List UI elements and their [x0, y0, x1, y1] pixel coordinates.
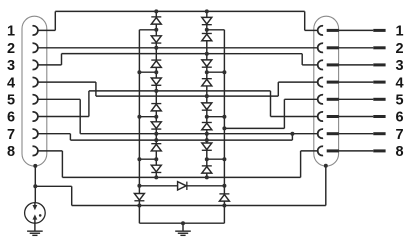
pin 4 contact (J2 right)	[318, 78, 323, 87]
junction GDT node	[33, 184, 37, 188]
pin 8 label dash (right)	[373, 149, 385, 152]
junction left chain y=159.2	[154, 157, 158, 161]
wire row6 left jog x=88.9	[88, 91, 90, 117]
svg-text:5: 5	[395, 93, 403, 109]
wire row1 right jog x=304.7	[304, 11, 306, 30]
wire jog x=71.7 down	[71, 186, 73, 205]
wire J2 shell drop x=325.8	[325, 166, 327, 206]
svg-text:1: 1	[395, 24, 403, 40]
pin 4 contact (J1 left)	[33, 78, 38, 87]
svg-text:4: 4	[7, 75, 15, 91]
junction left chain y=140.1	[154, 138, 158, 142]
wire row8 left jog x=62.4	[61, 151, 63, 178]
diode D13 (cathode down)	[202, 103, 212, 110]
pin 2 lead wire to label (right)	[339, 47, 373, 49]
pin 3 tail dash (J2)	[327, 63, 339, 66]
diode D1 (cathode up)	[151, 17, 161, 24]
junction left chain y=47.8	[154, 46, 158, 50]
earth ground (below GDT)	[27, 231, 43, 235]
wire pin3-L to jog	[38, 64, 62, 66]
junction left bus y=116.7	[137, 115, 141, 119]
junction left chain y=29.8	[154, 28, 158, 32]
junction right chain y=133.8	[205, 132, 209, 136]
wire earth line y=223.2	[139, 222, 224, 224]
junction right chain y=11.4	[205, 9, 209, 13]
junction right chain y=72.2	[205, 70, 209, 74]
svg-text:3: 3	[395, 58, 403, 74]
wire row7 left jog x=70.4	[69, 134, 71, 140]
junction right chain y=96.1	[205, 94, 209, 98]
wire right suppressor bus x=224.4	[223, 30, 225, 223]
svg-text:3: 3	[7, 58, 15, 74]
junction left bus y=159.2	[137, 157, 141, 161]
junction J1 shell node	[33, 164, 37, 168]
pin 4 label dash (right)	[373, 81, 385, 84]
wire row8 right jog x=300.6	[300, 151, 302, 178]
svg-text:8: 8	[395, 144, 403, 160]
junction right bus y=159.2	[222, 157, 226, 161]
wire J1 shell to GDT node	[34, 166, 36, 203]
pin 1 tail dash (J2)	[327, 29, 339, 32]
wire pin1-L to jog	[38, 29, 55, 31]
junction right bus y=128.4	[222, 126, 226, 130]
diode D4 (cathode down)	[151, 78, 161, 85]
junction left chain y=90.9	[154, 89, 158, 93]
wire mid-tap link right y=72.2	[207, 71, 225, 73]
wire mid-tap link left y=29.8	[139, 29, 156, 31]
junction left bus y=205.5	[137, 204, 141, 208]
wire GDT bus link y=185.8	[139, 185, 224, 187]
pin 1 lead wire to label (right)	[339, 29, 373, 31]
wire row6 to pin6-R	[271, 116, 318, 118]
pin 8 contact (J2 right)	[318, 146, 323, 155]
junction row7/row5 step node	[290, 132, 294, 136]
svg-text:7: 7	[7, 127, 15, 143]
pin 6 contact (J1 left)	[33, 112, 38, 121]
svg-text:6: 6	[7, 110, 15, 126]
pin 7 contact (J1 left)	[33, 129, 38, 138]
wire pin7-L to jog	[38, 133, 71, 135]
wire pin8-L to jog	[38, 150, 63, 152]
wire row4 right jog x=278.3	[277, 82, 279, 96]
wire row5 left jog x=80.2	[79, 99, 81, 133]
pin 2 label dash (right)	[373, 46, 385, 49]
wire net row2 straight y=47.8	[38, 47, 318, 49]
wire earth stub x=183	[182, 223, 184, 230]
wire row6 right jog x=270.5	[270, 91, 272, 117]
wire right diode chain spine x=206.8	[206, 11, 208, 177]
wire row3 left jog x=61.5	[61, 54, 63, 65]
pin 3 contact (J2 right)	[318, 60, 323, 69]
junction right chain y=116.7	[205, 115, 209, 119]
gas discharge tube F1	[25, 203, 46, 224]
diode D10 (cathode up)	[202, 33, 212, 40]
diode D3 (cathode up)	[151, 60, 161, 67]
junction right bus y=72.2	[222, 70, 226, 74]
junction right chain y=29.8	[205, 28, 209, 32]
diode D2 (cathode down)	[151, 36, 161, 43]
diode D8 (cathode down)	[151, 165, 161, 172]
wire net row5 run y=133.7 into pin7-R	[80, 133, 318, 135]
svg-text:6: 6	[395, 110, 403, 126]
junction left chain y=72.2	[154, 70, 158, 74]
wire row3 to pin3-R	[302, 64, 318, 66]
pin 2 tail dash (J2)	[327, 46, 339, 49]
wire net row6 run y=90.9	[89, 90, 271, 92]
wire net row8 run y=177.4	[62, 176, 300, 178]
wire mid-tap link right y=159.2	[207, 158, 225, 160]
pin 6 label dash (right)	[373, 115, 385, 118]
wire row4 left jog x=95.9	[95, 82, 97, 96]
wire left diode chain spine x=156.3	[155, 11, 157, 177]
svg-text:1: 1	[7, 24, 15, 40]
pin 7 label dash (right)	[373, 132, 385, 135]
pin 2 contact (J2 right)	[318, 43, 323, 52]
wire GDT node to jog y=186.3	[35, 185, 71, 187]
pin 5 tail dash (J2)	[327, 98, 339, 101]
diode D7 (cathode up)	[151, 144, 161, 151]
pin 6 lead wire to label (right)	[339, 116, 373, 118]
diode D15 (cathode down)	[202, 143, 212, 150]
wire row4 to pin4-R	[278, 81, 317, 83]
wire pin4-L to jog	[38, 81, 96, 83]
diode D16 (cathode up)	[202, 166, 212, 173]
diode D19 (cathode up)	[219, 194, 229, 201]
wire row1 to pin1-R	[305, 29, 318, 31]
wire row7 right step x=292.4	[291, 134, 293, 140]
junction J2 shell node	[324, 164, 328, 168]
junction left chain y=177.4	[154, 175, 158, 179]
wire GDT to earth stub	[34, 223, 36, 230]
pin 5 contact (J2 right)	[318, 95, 323, 104]
junction right chain y=53.7	[205, 52, 209, 56]
junction left bus y=185.8	[137, 184, 141, 188]
diode D6 (cathode down)	[151, 122, 161, 129]
pin 1 label dash (right)	[373, 29, 385, 32]
wire net row4 run y=96.1	[96, 95, 278, 97]
junction right chain y=177.4	[205, 175, 209, 179]
wire row1 left jog x=55.3	[54, 11, 56, 30]
pin 4 tail dash (J2)	[327, 81, 339, 84]
junction earth node	[181, 221, 185, 225]
wire row5 right jog x=284.4	[283, 99, 285, 128]
pin 1 contact (J2 right)	[318, 26, 323, 35]
junction left chain y=116.7	[154, 115, 158, 119]
wire mid-tap link right y=116.7	[207, 116, 225, 118]
pin 2 contact (J1 left)	[33, 43, 38, 52]
wire mid-tap link left y=159.2	[139, 158, 156, 160]
pin 3 lead wire to label (right)	[339, 64, 373, 66]
junction right bus y=116.7	[222, 115, 226, 119]
pin 6 tail dash (J2)	[327, 115, 339, 118]
diode D11 (cathode down)	[202, 60, 212, 67]
junction right chain y=159.2	[205, 157, 209, 161]
wire mid-tap link right y=29.8	[207, 29, 225, 31]
pin 5 contact (J1 left)	[33, 95, 38, 104]
svg-text:2: 2	[395, 41, 403, 57]
junction left chain y=133.8	[154, 132, 158, 136]
junction left bus y=72.2	[137, 70, 141, 74]
wire shell net run y=205.5	[72, 205, 326, 207]
wire mid-tap link left y=116.7	[139, 116, 156, 118]
pin 6 contact (J2 right)	[318, 112, 323, 121]
connector J2 shell (right, 8-pos jack outline)	[314, 16, 339, 166]
diode D18 (series, cathode right) on GDT bus link	[178, 182, 187, 190]
diode D14 (cathode up)	[202, 122, 212, 129]
wire net row3 run y=53.7	[62, 53, 303, 55]
wire row8 to pin8-R	[301, 150, 318, 152]
svg-text:7: 7	[395, 127, 403, 143]
pin 8 lead wire to label (right)	[339, 150, 373, 152]
wire row5 to pin5-R	[284, 98, 317, 100]
earth ground (center)	[175, 231, 191, 235]
junction right bus y=185.8	[222, 184, 226, 188]
pin 3 contact (J1 left)	[33, 60, 38, 69]
pin 8 contact (J1 left)	[33, 146, 38, 155]
wire net row1 top run y=11.4	[55, 10, 304, 12]
wire mid-tap link left y=72.2	[139, 71, 156, 73]
junction right bus y=205.5	[222, 204, 226, 208]
wire row3 right jog x=302.2	[301, 54, 303, 65]
junction left chain y=11.4	[154, 9, 158, 13]
connector J1 shell (left, 8-pos jack outline)	[22, 16, 47, 166]
wire left suppressor bus x=139.4	[138, 30, 140, 223]
wire row5-R link to right bus y=128.4	[224, 127, 284, 129]
junction right chain y=140.1	[205, 138, 209, 142]
svg-text:2: 2	[7, 41, 15, 57]
diode D9 (cathode down)	[202, 17, 212, 24]
wire pin5-L to jog	[38, 98, 80, 100]
svg-text:8: 8	[7, 144, 15, 160]
pin 8 tail dash (J2)	[327, 149, 339, 152]
pin 7 contact (J2 right)	[318, 129, 323, 138]
svg-text:5: 5	[7, 93, 15, 109]
diode D17 (cathode down)	[134, 194, 144, 201]
pin 4 lead wire to label (right)	[339, 81, 373, 83]
pin 3 label dash (right)	[373, 63, 385, 66]
wire net row7 run y=140.1	[70, 139, 292, 141]
pin 5 label dash (right)	[373, 98, 385, 101]
diode D12 (cathode up)	[202, 79, 212, 86]
wire pin6-L to jog	[38, 116, 89, 118]
pin 7 lead wire to label (right)	[339, 133, 373, 135]
pin 1 contact (J1 left)	[33, 26, 38, 35]
diode D5 (cathode up)	[151, 104, 161, 111]
pin 7 tail dash (J2)	[327, 132, 339, 135]
pin 5 lead wire to label (right)	[339, 98, 373, 100]
svg-text:4: 4	[395, 75, 403, 91]
